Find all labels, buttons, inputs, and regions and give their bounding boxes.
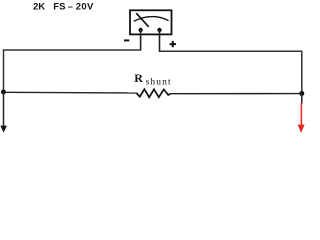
meter M1 box	[130, 10, 172, 34]
meter M1 terminal + (dot)	[157, 28, 161, 32]
wire bottom-right segment	[170, 93, 301, 95]
arrow right (red, down)	[298, 125, 305, 133]
node junction left	[1, 90, 6, 95]
label + (plus terminal)	[170, 41, 176, 47]
svg-text:R: R	[134, 71, 143, 85]
arrow left (black, down)	[0, 126, 7, 133]
wire meter plus lead	[159, 30, 161, 52]
wire left drop to arrow	[3, 92, 5, 127]
meter M1 needle	[136, 13, 149, 27]
meter M1 terminal - (dot)	[138, 28, 142, 32]
svg-text:2K: 2K	[33, 1, 45, 12]
label - (minus terminal)	[124, 39, 129, 41]
svg-text:20V: 20V	[76, 1, 94, 12]
wire right drop (red part)	[300, 103, 302, 126]
svg-text:shunt: shunt	[146, 77, 172, 87]
wire top-right rail	[160, 51, 302, 93]
meter M1 scale arc	[134, 17, 169, 22]
wire right drop (black part)	[301, 94, 303, 104]
svg-text:FS: FS	[53, 1, 65, 12]
wire top-left rail	[4, 50, 141, 92]
resistor Rshunt zigzag	[137, 89, 171, 97]
svg-text:–: –	[68, 1, 73, 12]
label 2K FS = 20V	[33, 1, 94, 12]
node junction right	[299, 91, 304, 96]
wire meter minus lead	[140, 30, 142, 51]
wire bottom-left segment	[4, 91, 137, 94]
